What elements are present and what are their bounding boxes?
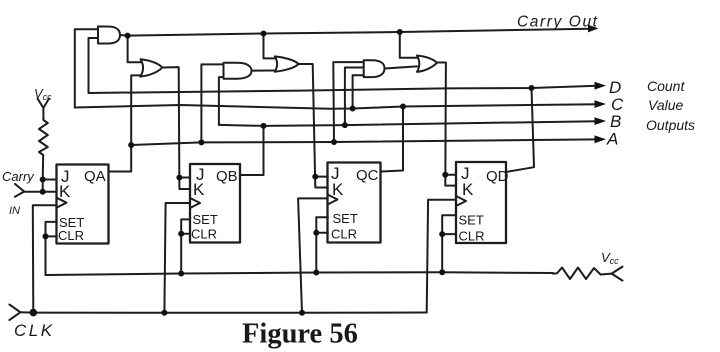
svg-text:Outputs: Outputs: [646, 117, 695, 133]
svg-text:QB: QB: [216, 168, 238, 185]
svg-text:Value: Value: [648, 97, 684, 113]
svg-text:CLR: CLR: [459, 229, 485, 244]
svg-text:QA: QA: [84, 168, 106, 185]
svg-text:K: K: [59, 182, 71, 201]
svg-text:Carry Out: Carry Out: [517, 14, 599, 31]
svg-text:CLR: CLR: [331, 227, 357, 242]
svg-text:B: B: [610, 112, 621, 131]
svg-text:Vcc: Vcc: [34, 86, 52, 102]
svg-text:SET: SET: [193, 212, 218, 227]
svg-text:Vcc: Vcc: [601, 250, 619, 266]
svg-text:SET: SET: [459, 213, 484, 228]
svg-text:IN: IN: [9, 205, 20, 217]
svg-text:K: K: [332, 180, 344, 199]
svg-text:K: K: [462, 180, 474, 199]
svg-text:QD: QD: [486, 168, 509, 185]
svg-text:CLK: CLK: [14, 321, 55, 340]
svg-text:QC: QC: [356, 167, 379, 184]
svg-text:Figure 56: Figure 56: [242, 319, 358, 350]
svg-text:SET: SET: [333, 211, 358, 226]
svg-text:CLR: CLR: [191, 227, 217, 242]
svg-text:Count: Count: [647, 78, 685, 94]
svg-text:CLR: CLR: [58, 228, 84, 243]
svg-text:K: K: [193, 180, 205, 199]
svg-text:Carry: Carry: [2, 169, 35, 184]
svg-text:A: A: [606, 130, 618, 149]
